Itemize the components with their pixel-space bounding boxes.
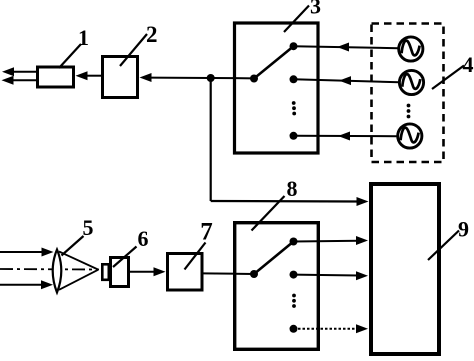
switch contact dot 8-2 [290,271,298,279]
wire block6 to block7 [130,271,157,273]
arrowhead row 1 [337,43,349,52]
svg-text:6: 6 [138,226,149,251]
ellipsis dots block 8 [292,294,296,298]
wire block7 to block8 [203,272,254,275]
dashed box 4 [372,24,444,163]
pointer line for label 1 [59,44,81,68]
arrowhead input ray top [42,248,54,257]
wire into block 3 to common node [234,77,254,79]
wire oscillator 2 to contact 3-2 [294,79,400,82]
pointer line for label 5 [62,236,84,256]
svg-text:8: 8 [287,176,298,201]
wire oscillator 3 to contact 3-3 [294,135,398,137]
wire into block 8 to common node [234,273,254,275]
pointer line for label 2 [120,34,147,66]
switch contact dot 3-1 [290,42,298,50]
svg-text:9: 9 [458,217,469,242]
arrowhead left output a [2,67,14,76]
input ray bottom [0,284,44,286]
arrowhead row 2 [339,76,351,85]
block 6 [111,258,129,287]
pointer line for label 8 [252,196,285,231]
block 8 [235,223,319,350]
arrowhead into block 7 [154,267,166,276]
oscillator G1 [399,37,423,61]
wire contact 8-2 to block 9 [294,274,360,277]
wire output ray a from block 1 [13,71,36,73]
wire main bus from block3 to block2 [149,77,254,80]
block 9 [371,184,439,354]
svg-text:2: 2 [146,22,158,47]
wire junction down [210,78,212,201]
arrowhead into block 1 [76,71,88,80]
pointer line for label 3 [284,6,309,33]
converging ray bottom [59,270,98,290]
switch contact dot 8-1 [290,238,298,246]
switch contact dot 3-3 [290,132,298,140]
block 3 [235,23,319,153]
arrowhead into block 9 row 2 [356,271,368,280]
svg-text:5: 5 [83,215,94,240]
arrowhead into block 2 [140,73,152,82]
switch common node block 8 [250,270,258,278]
wire contact 8-1 to block 9 [294,240,360,243]
arrowhead into block 9 top input [357,197,369,206]
block 1 [38,67,74,87]
pointer line for label 7 [185,243,206,270]
svg-text:7: 7 [200,219,213,246]
switch contact dot 8-3 [290,325,298,333]
switch contact dot 3-2 [290,75,298,83]
wire junction to block 9 [211,200,359,203]
arrowhead into block 9 row 3 [356,324,368,333]
arrowhead into block 9 row 1 [356,236,368,245]
block 2 [103,57,138,98]
ellipsis dots box 4 [407,104,411,108]
switch common node block 3 [250,75,258,83]
lens 5 [53,250,62,293]
oscillator G3 [398,124,422,148]
converging ray top [59,252,98,270]
junction node [207,74,215,82]
svg-text:4: 4 [463,52,474,77]
optical axis dash-dot [0,268,99,271]
pointer line for label 6 [113,247,137,268]
pointer line for label 4 [432,66,464,90]
block 7 [168,254,203,291]
ellipsis dots block 3 [292,101,296,105]
oscillator G2 [399,70,423,94]
input ray top [0,251,44,253]
block 6 sensor window [102,264,109,280]
wire oscillator 1 to contact 3-1 [294,46,399,48]
switch arm block 8 [254,242,294,275]
wire block2 to block1 [85,75,101,77]
wire contact 8-3 to block 9 dotted [294,328,360,330]
svg-text:3: 3 [310,0,321,19]
wire output ray b from block 1 [13,79,36,81]
switch arm block 3 [254,46,294,78]
pointer line for label 9 [428,231,459,261]
arrowhead row 3 [338,132,350,141]
arrowhead left output b [2,76,14,85]
arrowhead input ray bottom [41,280,53,289]
